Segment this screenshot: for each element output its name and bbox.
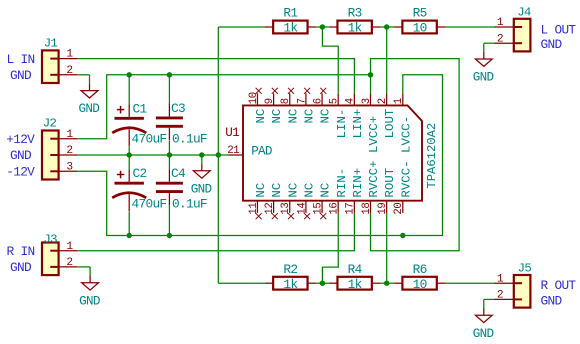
wire: R1 gain leg vertical to GND rail [217, 27, 219, 155]
U1 value TPA6120A2 [425, 123, 439, 189]
wire: +12V rail from J2 pin1 over C1/C3 to U1 pin3 [78, 75, 371, 139]
svg-text:7: 7 [296, 98, 308, 104]
U1 pin 13 stub/number [280, 183, 300, 219]
resistor R6 10 [394, 262, 445, 292]
ground at GND rail near C4 [191, 155, 212, 196]
label L IN [7, 52, 35, 67]
wire: LIN- jog from R1/R3 junction to U1 pin5 [322, 27, 338, 93]
svg-text:GND: GND [79, 294, 100, 308]
label GND [10, 148, 32, 163]
connector J5 (R OUT) [495, 262, 532, 308]
svg-text:NC: NC [254, 109, 268, 124]
wire: segment R2 to R4 [316, 282, 329, 284]
svg-text:10: 10 [248, 92, 260, 104]
svg-text:10: 10 [413, 21, 427, 36]
svg-text:R IN: R IN [7, 244, 35, 259]
svg-text:GND: GND [191, 182, 212, 196]
junction gain legs on GND rail [216, 152, 221, 157]
wire: segment R6 to J5 pin1 [445, 282, 495, 284]
svg-text:NC: NC [270, 183, 284, 198]
svg-text:C2: C2 [133, 166, 147, 181]
label R IN [7, 244, 35, 259]
junction R4/R6/ROUT [384, 281, 389, 286]
svg-text:GND: GND [79, 102, 100, 116]
U1 pin 6 stub/number [312, 88, 332, 124]
U1 pin 2 stub/number [377, 93, 397, 138]
wire: +12V jog from U1 pin3 right side down to U1 pin18 RVCC+ [371, 59, 460, 251]
resistor R5 10 [394, 6, 445, 36]
svg-text:R3: R3 [348, 6, 362, 21]
wire: J4 pin2 to ground [484, 42, 496, 44]
svg-text:20: 20 [393, 203, 405, 215]
wire: segment R4 to R6 [380, 282, 394, 284]
U1 pin 21 number [227, 145, 239, 157]
label GND [10, 260, 32, 275]
svg-text:GND: GND [473, 327, 494, 341]
junction C4 bottom on -12V rail [167, 233, 172, 238]
svg-text:GND: GND [541, 37, 563, 52]
wire: L IN net from J1 pin1 to U1 pin4 LIN+ [78, 59, 355, 94]
svg-text:R4: R4 [348, 262, 363, 277]
U1 pin 10 stub/number [248, 88, 268, 124]
svg-text:1: 1 [66, 49, 73, 61]
svg-text:NC: NC [270, 109, 284, 124]
svg-text:L IN: L IN [7, 52, 35, 67]
U1 pin 12 stub/number [264, 183, 284, 219]
svg-text:R1: R1 [283, 6, 298, 21]
svg-text:PAD: PAD [251, 145, 272, 159]
svg-text:1: 1 [66, 129, 73, 141]
wire: R IN net from J3 pin1 to U1 pin17 RIN+ [78, 213, 355, 251]
wire: C4 bottom lead [168, 206, 170, 236]
svg-text:C1: C1 [133, 101, 148, 116]
svg-text:4: 4 [345, 98, 357, 104]
svg-text:GND: GND [541, 293, 563, 308]
svg-text:1k: 1k [348, 21, 363, 36]
label +12V [6, 132, 35, 147]
svg-text:NC: NC [303, 109, 317, 124]
svg-text:NC: NC [319, 183, 333, 198]
svg-text:2: 2 [497, 290, 503, 302]
svg-text:NC: NC [254, 183, 268, 198]
svg-text:21: 21 [227, 145, 239, 157]
U1 pin 8 stub/number [280, 88, 300, 124]
resistor R3 1k [329, 6, 380, 36]
svg-text:U1: U1 [225, 126, 239, 140]
junction C3/C4 on GND rail [167, 152, 172, 157]
U1 pin 21 PAD stub [229, 154, 243, 156]
svg-text:LIN-: LIN- [335, 109, 349, 139]
svg-text:17: 17 [345, 203, 357, 215]
svg-text:5: 5 [329, 98, 341, 104]
capacitor C2 470uF [112, 166, 166, 211]
resistor R2 1k [265, 262, 316, 292]
U1 reference [225, 126, 239, 140]
svg-text:R6: R6 [413, 262, 427, 277]
svg-text:ROUT: ROUT [383, 168, 397, 198]
wire: top resistor row segment left of R1 [218, 26, 264, 28]
U1 pin 4 stub/number [345, 93, 365, 138]
svg-text:0.1uF: 0.1uF [172, 131, 207, 146]
junction C1 top on +12V rail [127, 72, 132, 77]
svg-text:1k: 1k [283, 21, 298, 36]
svg-text:0.1uF: 0.1uF [172, 197, 207, 212]
svg-text:GND: GND [10, 260, 32, 275]
wire: LOUT feedback from U1 pin2 up to R3/R5 junction [386, 27, 388, 93]
svg-text:10: 10 [413, 277, 427, 292]
connector J4 (L OUT) [495, 6, 531, 52]
label GND [541, 293, 563, 308]
U1 combined pin name RVCC- LVCC- (pins 1/20) [399, 116, 413, 198]
wire: C2 top lead [128, 155, 130, 169]
connector J2 (power +12V/GND/-12V) [42, 116, 78, 179]
ground at J3 input [79, 267, 100, 308]
U1 pin 7 stub/number [296, 88, 316, 124]
U1 pin 19 stub/number [377, 168, 397, 215]
wire: C3 bottom lead [168, 141, 170, 155]
svg-text:3: 3 [361, 98, 373, 104]
svg-text:J5: J5 [518, 262, 532, 276]
capacitor C3 0.1uF [156, 101, 207, 146]
resistor R1 1k [265, 6, 316, 36]
U1 PAD pin name [251, 145, 272, 159]
wire: bottom resistor row segment left of R2 [218, 282, 264, 284]
svg-text:2: 2 [377, 98, 389, 104]
ground at J1 input [79, 75, 100, 116]
connector J3 (R IN) [42, 233, 78, 276]
wire: segment R5 to J4 pin1 [445, 26, 495, 28]
label -12V [6, 164, 35, 179]
svg-text:15: 15 [312, 203, 324, 215]
svg-text:J3: J3 [43, 233, 57, 247]
svg-text:1: 1 [497, 17, 504, 29]
wire: C3 top lead [168, 75, 170, 105]
svg-text:J2: J2 [43, 116, 57, 130]
U1 pin 20 stub/number [393, 201, 405, 215]
svg-text:R2: R2 [283, 262, 297, 277]
U1 pin 11 stub/number [248, 183, 268, 219]
svg-text:18: 18 [361, 203, 373, 215]
capacitor C1 470uF [112, 101, 166, 146]
svg-text:R OUT: R OUT [541, 278, 577, 293]
label R OUT [541, 278, 577, 293]
svg-text:C4: C4 [171, 166, 186, 181]
svg-text:16: 16 [329, 203, 341, 215]
svg-text:+12V: +12V [6, 132, 35, 147]
svg-text:RIN-: RIN- [335, 168, 349, 198]
U1 pin 5 stub/number [329, 93, 349, 138]
U1 pin 14 stub/number [296, 183, 316, 219]
U1 pin 3 stub/number [361, 93, 373, 105]
svg-text:RVCC- LVCC-: RVCC- LVCC- [399, 116, 413, 198]
svg-text:1: 1 [497, 273, 504, 285]
svg-text:J4: J4 [517, 6, 531, 20]
svg-text:6: 6 [312, 98, 324, 104]
junction R1/R3/LIN- [320, 24, 325, 29]
svg-text:1: 1 [66, 241, 73, 253]
wire: C4 top lead [168, 155, 170, 169]
svg-text:2: 2 [66, 145, 72, 157]
op-amp U1 TPA6120A2 body [243, 105, 422, 200]
ground at J5 output [473, 299, 494, 340]
svg-text:NC: NC [303, 183, 317, 198]
junction ground symbol on GND rail [199, 152, 204, 157]
svg-text:RIN+: RIN+ [351, 168, 365, 198]
svg-text:9: 9 [264, 98, 276, 104]
junction R2/R4/RIN- [320, 281, 325, 286]
wire: GND rail from J2 pin2 to U1 pin21 PAD [78, 154, 229, 156]
svg-text:TPA6120A2: TPA6120A2 [425, 123, 439, 189]
U1 pin 9 stub/number [264, 88, 284, 124]
svg-text:C3: C3 [171, 101, 185, 116]
junction R3/R5/LOUT [384, 24, 389, 29]
U1 pin 17 stub/number [345, 168, 365, 215]
svg-text:LIN+: LIN+ [351, 109, 365, 139]
wire: RIN- jog from R2/R4 junction to U1 pin16 [322, 213, 338, 283]
svg-text:19: 19 [377, 203, 389, 215]
svg-text:GND: GND [10, 148, 32, 163]
resistor R4 1k [329, 262, 380, 292]
U1 pin 1 stub/number [393, 93, 405, 105]
junction -12V rail at U1 pin20 [400, 233, 405, 238]
wire: -12V rail from J2 pin3 under C2/C4 to U1 pin20 then up to pin1 LVCC- [78, 75, 443, 236]
svg-text:NC: NC [319, 109, 333, 124]
wire: J1 pin2 to ground [78, 74, 90, 76]
svg-text:L OUT: L OUT [541, 23, 577, 38]
svg-text:1k: 1k [283, 277, 298, 292]
label GND [541, 37, 563, 52]
svg-text:2: 2 [497, 33, 503, 45]
junction C1/C2 on GND rail [127, 152, 132, 157]
svg-text:NC: NC [286, 183, 300, 198]
junction C2 bottom on -12V rail [127, 233, 132, 238]
U1 combined pin name RVCC+ LVCC+ (pins 3/18) [367, 116, 381, 198]
wire: C2 bottom lead [128, 212, 130, 236]
wire: ROUT feedback from U1 pin19 down to R4/R6 junction [386, 213, 388, 283]
svg-text:RVCC+ LVCC+: RVCC+ LVCC+ [367, 116, 381, 198]
U1 pin 16 stub/number [329, 168, 349, 215]
svg-text:470uF: 470uF [132, 197, 167, 212]
svg-text:8: 8 [280, 98, 292, 104]
wire: R2 gain leg vertical to GND rail [217, 155, 219, 283]
svg-text:J1: J1 [44, 36, 58, 50]
svg-text:14: 14 [296, 203, 308, 215]
svg-text:1k: 1k [348, 277, 363, 292]
svg-text:R5: R5 [413, 6, 427, 21]
ground at J4 output [473, 43, 494, 84]
junction +12V rail at U1 pin3 [368, 72, 373, 77]
capacitor C4 0.1uF [156, 166, 207, 211]
svg-text:2: 2 [66, 257, 72, 269]
U1 pin 18 stub/number [361, 201, 373, 215]
wire: C1 top lead [128, 75, 130, 105]
svg-text:12: 12 [264, 203, 276, 215]
svg-text:GND: GND [10, 68, 32, 83]
svg-text:1: 1 [393, 98, 405, 104]
svg-text:13: 13 [280, 203, 292, 215]
wire: J5 pin2 to ground [484, 298, 496, 300]
svg-text:NC: NC [286, 109, 300, 124]
svg-text:LOUT: LOUT [383, 109, 397, 139]
wire: J3 pin2 to ground [78, 266, 90, 268]
svg-text:3: 3 [66, 161, 72, 173]
svg-text:2: 2 [66, 65, 72, 77]
connector J1 (L IN) [42, 36, 78, 83]
svg-text:11: 11 [248, 203, 260, 215]
svg-text:-12V: -12V [6, 164, 35, 179]
svg-text:470uF: 470uF [132, 132, 167, 147]
svg-text:GND: GND [473, 71, 494, 85]
wire: segment R1 to R3 [316, 26, 329, 28]
U1 pin 15 stub/number [312, 183, 332, 219]
label GND [10, 68, 32, 83]
label L OUT [541, 23, 577, 38]
junction C3 top on +12V rail [167, 72, 172, 77]
wire: C1 bottom lead [128, 147, 130, 156]
wire: segment R3 to R5 [380, 26, 394, 28]
